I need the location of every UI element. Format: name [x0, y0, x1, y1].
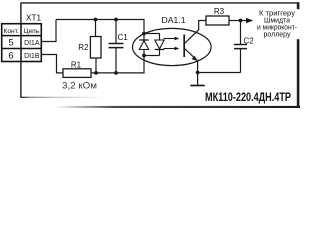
svg-text:Конт.: Конт.: [4, 28, 19, 35]
svg-text:Шмидта: Шмидта: [264, 17, 290, 24]
light arrow upper: [164, 38, 176, 40]
emitter arrowhead: [192, 56, 198, 61]
svg-text:К триггеру: К триггеру: [259, 10, 296, 17]
wire R2 top: [95, 20, 97, 37]
node: LED bottom: [142, 54, 146, 58]
LED rail top: [144, 33, 160, 35]
wire C2 bottom: [240, 49, 242, 73]
node: top bus / R2: [94, 18, 98, 22]
node: emitter / C2 / ground: [196, 71, 200, 75]
wire C1 top: [115, 20, 117, 44]
wire down to ground: [197, 73, 199, 86]
wire top bus drop into optocoupler: [143, 19, 145, 34]
capacitor C1 plates: [109, 44, 124, 48]
node: bottom bus / C1: [114, 71, 118, 75]
connector XT1 table: [2, 24, 42, 62]
wire R1 right to bottom bus: [91, 72, 144, 74]
white gap over right border behind annotation: [294, 9, 300, 39]
svg-text:3,2 кОм: 3,2 кОм: [62, 81, 97, 91]
svg-text:DA1.1: DA1.1: [162, 16, 187, 25]
optocoupler U1 ellipse: [133, 28, 212, 65]
wire R3 left is in collector path; wire R3 right to output node: [229, 20, 241, 22]
wire top bus: [56, 19, 144, 21]
svg-text:6: 6: [8, 50, 13, 61]
svg-text:XT1: XT1: [26, 14, 41, 23]
page cell border bottom: [55, 106, 300, 108]
wire C2 top: [240, 21, 242, 45]
LED rail bottom: [144, 55, 160, 57]
ground: [190, 85, 205, 87]
device frame (top edge): [21, 2, 298, 4]
svg-text:Цепь: Цепь: [24, 28, 40, 35]
diode VD2 (right, pointing down): [155, 40, 164, 49]
output arrow to microcontroller: [241, 20, 248, 22]
resistor R1: [63, 69, 91, 78]
svg-text:R1: R1: [71, 60, 82, 69]
wire DI1A from table to top bus: [42, 20, 56, 42]
svg-text:R2: R2: [78, 43, 89, 52]
device frame (left edge): [20, 3, 22, 98]
node: output / C2: [239, 19, 243, 23]
device frame (bottom edge, fading): [21, 97, 106, 98]
light arrow lower: [164, 48, 176, 50]
capacitor C2 plates: [234, 45, 247, 49]
node: top bus / C1: [114, 18, 118, 22]
svg-text:C2: C2: [244, 37, 255, 46]
transistor VT1 base bar: [183, 35, 185, 58]
node: LED top: [142, 32, 146, 36]
wire bottom bus rise into optocoupler: [143, 56, 145, 74]
page cell border right: [297, 2, 300, 108]
wire emitter node to C2: [198, 72, 241, 74]
wire DI1B from table down to R1: [42, 55, 63, 73]
svg-text:5: 5: [8, 37, 13, 48]
LED left branch wires: [143, 34, 145, 56]
transistor collector: [185, 21, 207, 44]
diode VD1 (left, pointing up): [139, 39, 148, 41]
transistor emitter: [185, 49, 198, 73]
svg-text:C1: C1: [118, 33, 129, 42]
svg-text:R3: R3: [214, 7, 225, 16]
wire C1 bottom: [115, 48, 117, 73]
svg-text:роллеру: роллеру: [264, 31, 291, 38]
svg-text:и микроконт-: и микроконт-: [257, 24, 298, 31]
resistor R3: [206, 16, 229, 25]
svg-text:DI1A: DI1A: [24, 40, 40, 47]
svg-text:МК110-220.4ДН.4ТР: МК110-220.4ДН.4ТР: [205, 90, 291, 104]
node: bottom bus / R2: [94, 71, 98, 75]
resistor R2: [90, 37, 101, 59]
wire R2 bottom: [95, 58, 97, 73]
svg-text:DI1B: DI1B: [24, 53, 40, 60]
LED right branch wires: [159, 34, 161, 56]
